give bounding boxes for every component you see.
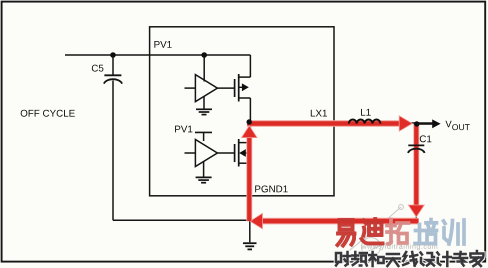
watermark big text 易迪拓培训 (hand-drawn) — [338, 219, 465, 246]
label PV1 (box pin) — [154, 41, 171, 48]
ground: under upper driver — [196, 96, 212, 114]
ground: under lower driver — [196, 161, 212, 183]
capacitor C5 — [92, 56, 122, 84]
迪 — [362, 219, 383, 244]
wire: C1 branch (under red) — [415, 124, 417, 221]
wire: VOUT stub with arrow — [417, 123, 433, 125]
label PV1 (lower driver supply) — [175, 126, 192, 133]
wire: top supply rail — [65, 54, 250, 56]
node LX — [247, 119, 252, 124]
wire: LX to VOUT (under red) — [250, 122, 433, 124]
拓 — [387, 220, 409, 245]
label OFF CYCLE — [21, 110, 75, 117]
watermark logo swoosh — [339, 205, 404, 260]
wire: C5 to bottom return — [113, 81, 250, 221]
wire: lower driver output to gate — [217, 152, 234, 154]
transistor Q1 (high-side MOSFET) — [235, 74, 251, 102]
wire: Q2 drain to LX — [249, 123, 251, 143]
power rail PV1 stub — [195, 132, 212, 141]
buffer driver U1a (upper) — [195, 75, 217, 102]
label LX1 — [311, 110, 327, 117]
wire: upper driver input stub — [185, 87, 196, 89]
wire: Q1 source to LX — [249, 98, 251, 123]
node VOUT junction — [414, 121, 419, 126]
capacitor C1 — [408, 135, 431, 153]
训 — [444, 220, 465, 244]
node: C5 tap on supply rail — [110, 52, 116, 58]
label VOUT — [445, 121, 451, 127]
current path (red): up through Q2 — [242, 126, 258, 222]
current path (red): bottom return — [250, 213, 419, 229]
易 — [338, 220, 355, 246]
wire: upper driver output to gate — [217, 87, 234, 89]
label PGND1 — [255, 185, 287, 192]
inductor L1 — [349, 119, 381, 123]
node: driver supply tap — [201, 52, 207, 58]
current path (red): LX through L1 to VOUT — [247, 116, 412, 131]
wire: Q1 drain to rail — [249, 55, 251, 77]
wire: supply tap to upper driver — [203, 55, 205, 82]
IC box — [150, 27, 334, 196]
current path (red): VOUT down through C1 — [408, 124, 424, 217]
transistor Q2 (low-side MOSFET) — [235, 139, 251, 167]
ground: PGND — [243, 220, 257, 249]
buffer driver U1b (lower) — [195, 140, 217, 167]
watermark url — [361, 244, 437, 251]
培 — [415, 220, 437, 244]
wire: Q2 source to PGND — [249, 163, 251, 220]
wire: lower driver input stub — [185, 152, 196, 154]
